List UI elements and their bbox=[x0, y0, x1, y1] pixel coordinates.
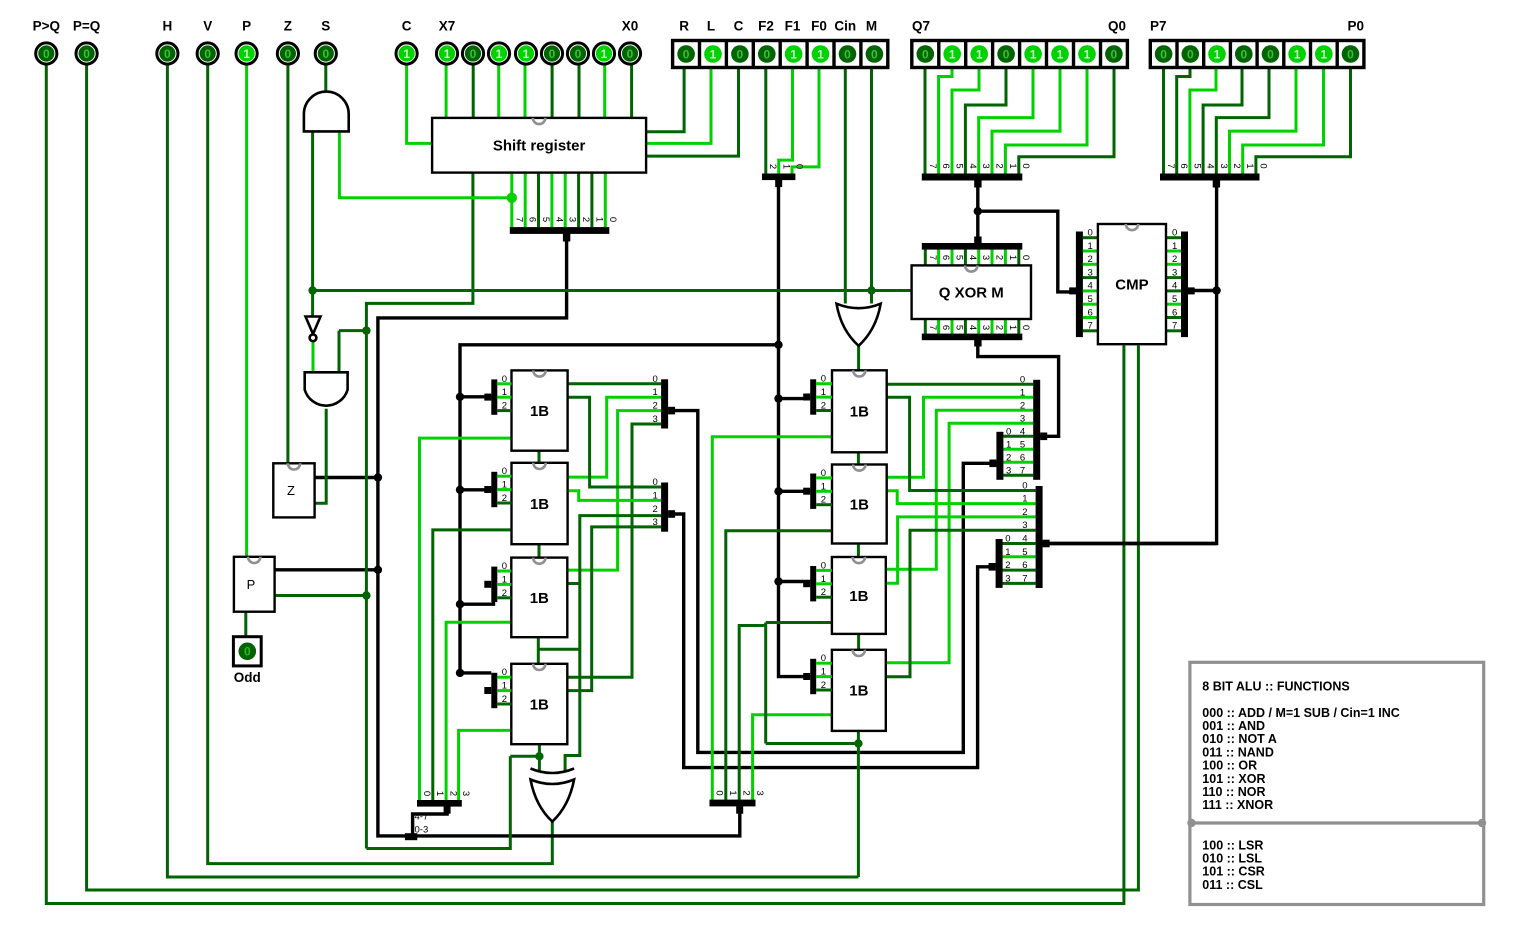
1B slice U10 bbox=[832, 557, 886, 634]
junction P bus at CMP bbox=[1212, 286, 1220, 294]
svg-text:4: 4 bbox=[967, 163, 978, 168]
shift register U1 bbox=[432, 118, 646, 173]
svg-text:100 :: LSR: 100 :: LSR bbox=[1202, 838, 1263, 852]
svg-text:1: 1 bbox=[1006, 439, 1011, 450]
wire net366 to AND gate input bbox=[339, 329, 366, 332]
svg-text:1: 1 bbox=[1022, 494, 1027, 505]
wire AND gate input drop bbox=[338, 331, 341, 373]
input pin C bbox=[396, 19, 417, 65]
bus P splitter trunk down bbox=[1042, 181, 1217, 544]
svg-text:4-7: 4-7 bbox=[415, 812, 429, 823]
wire Q0 to splitter bbox=[1019, 68, 1114, 174]
splitter F select for 1B slice U5 bbox=[484, 466, 511, 507]
svg-text:010 :: NOT A: 010 :: NOT A bbox=[1202, 732, 1277, 746]
1B slice U7 bbox=[511, 664, 567, 744]
svg-text:1: 1 bbox=[496, 47, 503, 61]
wire X4 to 1B box4 input bbox=[459, 730, 512, 800]
svg-text:Q XOR M: Q XOR M bbox=[939, 285, 1004, 302]
svg-text:1: 1 bbox=[821, 481, 826, 492]
splitter F 3-bit bbox=[762, 164, 805, 187]
svg-text:5: 5 bbox=[540, 217, 551, 222]
wire Q bit 6 into Q XOR M bbox=[937, 249, 940, 265]
wire X4 pin to shift register bbox=[524, 65, 527, 118]
wire P6 to splitter bbox=[1177, 68, 1190, 174]
wire Q XOR M result bit 6 bbox=[937, 319, 940, 334]
svg-text:4: 4 bbox=[1172, 281, 1177, 292]
svg-text:V: V bbox=[203, 19, 212, 34]
wire Q5 to splitter bbox=[952, 68, 979, 174]
wire CMP left pin 5 bbox=[1083, 303, 1098, 306]
bus splitter s1 to splitter B bbox=[669, 411, 997, 753]
wire Q bit 1 into Q XOR M bbox=[1004, 249, 1007, 265]
splitter D lower nibble bbox=[989, 534, 1011, 588]
svg-text:P=Q: P=Q bbox=[73, 19, 100, 34]
splitter Q bus 8-bit bbox=[922, 163, 1031, 187]
wire X3 pin to shift register bbox=[551, 65, 554, 118]
splitter B upper nibble bbox=[989, 426, 1011, 480]
svg-text:Z: Z bbox=[284, 19, 292, 34]
wire Q bit 3 into Q XOR M bbox=[977, 249, 980, 265]
svg-text:3: 3 bbox=[567, 217, 578, 222]
wire H flag net bbox=[167, 65, 858, 878]
wire carry box5-box6 bbox=[857, 452, 860, 464]
bus Q XOR M output to splitter A bbox=[978, 339, 1059, 436]
junction X bus at Z bbox=[374, 473, 382, 481]
svg-text:2: 2 bbox=[502, 493, 507, 504]
wire shift register bit 4 to splitter bbox=[550, 173, 553, 228]
flag box Z bbox=[273, 463, 314, 517]
svg-text:Shift register: Shift register bbox=[493, 138, 586, 155]
svg-text:2: 2 bbox=[1088, 254, 1093, 265]
splitter F select for 1B slice U8 bbox=[803, 374, 832, 415]
svg-text:1B: 1B bbox=[849, 683, 868, 700]
wire box2 out to s2 pin1 bbox=[568, 491, 662, 501]
svg-text:3: 3 bbox=[1006, 465, 1011, 476]
wire box8 out to C pin3 bbox=[886, 530, 1036, 677]
svg-text:1B: 1B bbox=[850, 496, 869, 513]
wire splitter B pin 0 to A bbox=[1003, 435, 1033, 438]
svg-text:0: 0 bbox=[821, 560, 826, 571]
svg-text:0: 0 bbox=[575, 47, 582, 61]
wire P>Q net: CMP pin to P>Q pin bbox=[46, 65, 1124, 904]
svg-text:8 BIT ALU :: FUNCTIONS: 8 BIT ALU :: FUNCTIONS bbox=[1202, 680, 1349, 694]
input pin X3 bbox=[541, 43, 562, 64]
comparator CMP U3 bbox=[1098, 224, 1166, 344]
svg-text:0: 0 bbox=[502, 466, 507, 477]
svg-text:2: 2 bbox=[653, 401, 658, 412]
wire splitter D pin 0 to C bbox=[1001, 542, 1036, 545]
junction F left bus bbox=[456, 486, 464, 494]
svg-text:6: 6 bbox=[940, 325, 951, 330]
wire Q4 to splitter bbox=[965, 68, 1006, 174]
wire Q XOR M result bit 2 bbox=[991, 319, 994, 334]
output pin Odd bbox=[233, 637, 261, 685]
svg-text:1B: 1B bbox=[850, 404, 869, 421]
input pin X7 bbox=[436, 19, 457, 65]
svg-text:3: 3 bbox=[1005, 573, 1010, 584]
svg-text:1: 1 bbox=[1020, 387, 1025, 398]
svg-text:1: 1 bbox=[821, 387, 826, 398]
wire F2 pin to F splitter bbox=[764, 68, 767, 174]
svg-text:1: 1 bbox=[780, 164, 791, 169]
svg-text:0: 0 bbox=[627, 47, 634, 61]
wire splitter D pin 2 to C bbox=[1001, 569, 1036, 572]
svg-text:Q7: Q7 bbox=[912, 19, 930, 34]
wire Q bit 5 into Q XOR M bbox=[951, 249, 954, 265]
svg-text:6: 6 bbox=[1172, 307, 1177, 318]
svg-text:5: 5 bbox=[954, 163, 965, 168]
flag box P bbox=[234, 557, 275, 612]
wire carry box6-box7 bbox=[857, 544, 860, 558]
svg-text:2: 2 bbox=[821, 401, 826, 412]
input pin strip P7-P0 bbox=[1150, 19, 1364, 68]
wire P box to net366 bbox=[275, 594, 367, 597]
wire P pin to P box bbox=[245, 65, 248, 557]
wire Q6 to splitter bbox=[939, 68, 952, 174]
svg-text:3: 3 bbox=[980, 163, 991, 168]
wire carry box7-box8 bbox=[857, 634, 860, 650]
svg-text:S: S bbox=[321, 19, 330, 34]
svg-text:2: 2 bbox=[994, 163, 1005, 168]
wire X5 pin to shift register bbox=[497, 65, 500, 118]
svg-text:0: 0 bbox=[821, 374, 826, 385]
wire CMP right pin 4 bbox=[1166, 289, 1181, 292]
wire Cin pin to OR gate bbox=[844, 68, 847, 304]
legend box 8 BIT ALU FUNCTIONS bbox=[1187, 662, 1486, 904]
wire s1 pin2 to box3 bbox=[567, 411, 661, 570]
wire P4 to splitter bbox=[1203, 68, 1242, 174]
wire box3 out / carry to s2 pin2 bbox=[565, 516, 661, 771]
wire L pin to shift register bbox=[646, 68, 711, 144]
wire carry box8 down bbox=[857, 731, 860, 877]
svg-text:X0: X0 bbox=[622, 19, 639, 34]
svg-text:7: 7 bbox=[1172, 321, 1177, 332]
svg-text:F2: F2 bbox=[758, 19, 774, 34]
wire carry box2-box3 bbox=[538, 544, 541, 557]
junction net366 P box branch bbox=[362, 591, 370, 599]
wire OR gate output to box5 bbox=[857, 346, 860, 371]
svg-text:1: 1 bbox=[523, 47, 530, 61]
1B slice U5 bbox=[512, 463, 568, 544]
wire CMP left pin 1 bbox=[1083, 250, 1098, 253]
wire C pin to shift register clock bbox=[407, 65, 433, 144]
wire X3 to 1B box5 input bbox=[712, 437, 832, 800]
svg-text:101 :: CSR: 101 :: CSR bbox=[1202, 865, 1265, 879]
svg-text:2: 2 bbox=[1231, 163, 1242, 168]
svg-text:F1: F1 bbox=[785, 19, 801, 34]
wire Q XOR M result bit 7 bbox=[924, 319, 927, 334]
wire shift register bit 6 to splitter bbox=[524, 173, 527, 228]
wire Q3 to splitter bbox=[979, 68, 1033, 174]
svg-text:1: 1 bbox=[434, 791, 445, 796]
bus Z box input stub bbox=[315, 476, 378, 479]
svg-text:1: 1 bbox=[821, 574, 826, 585]
wire CMP left pin 6 bbox=[1083, 316, 1098, 319]
bus F to splitter s1 bbox=[460, 395, 491, 398]
wire A pin1 to box6 bbox=[887, 397, 1033, 477]
svg-text:0: 0 bbox=[502, 561, 507, 572]
wire splitter D pin 1 to C bbox=[1001, 555, 1036, 558]
wire CMP right pin 3 bbox=[1166, 276, 1181, 279]
junction F left bus s3 bbox=[456, 600, 464, 608]
svg-text:P0: P0 bbox=[1347, 19, 1364, 34]
svg-text:1: 1 bbox=[727, 790, 738, 795]
wire CMP right pin 5 bbox=[1166, 303, 1181, 306]
input pin strip Q7-Q0 bbox=[912, 19, 1128, 68]
svg-text:1: 1 bbox=[1214, 47, 1221, 61]
wire Q bit 7 into Q XOR M bbox=[924, 249, 927, 265]
svg-text:0: 0 bbox=[322, 47, 329, 61]
wire box6 out to C pin1 bbox=[887, 491, 1036, 504]
output pin H bbox=[157, 19, 178, 65]
wire splitter B pin 1 to A bbox=[1003, 448, 1033, 451]
wire box7 out to C pin2 bbox=[886, 517, 1036, 583]
svg-text:0-3: 0-3 bbox=[415, 825, 429, 836]
bus F to splitter s7 bbox=[779, 580, 811, 583]
wire Q XOR M result bit 3 bbox=[977, 319, 980, 334]
wire AND1 right input from X7 bit bbox=[339, 131, 511, 197]
svg-text:1: 1 bbox=[790, 47, 797, 61]
wire C (carry) pin to shift register bbox=[646, 68, 738, 157]
svg-text:001 :: AND: 001 :: AND bbox=[1202, 719, 1265, 733]
svg-text:1: 1 bbox=[1007, 325, 1018, 330]
svg-text:6: 6 bbox=[940, 255, 951, 260]
svg-text:M: M bbox=[866, 19, 877, 34]
svg-text:6: 6 bbox=[527, 217, 538, 222]
splitter F select for 1B slice U4 bbox=[484, 374, 511, 415]
svg-text:P: P bbox=[242, 19, 251, 34]
junction X bus at P box bbox=[374, 566, 382, 574]
input pin X2 bbox=[567, 43, 588, 64]
svg-text:P7: P7 bbox=[1150, 19, 1167, 34]
wire carry to 1B box7 input bbox=[766, 621, 832, 624]
wire CMP left pin 2 bbox=[1083, 263, 1098, 266]
svg-text:3: 3 bbox=[980, 325, 991, 330]
svg-text:4: 4 bbox=[1020, 426, 1025, 437]
svg-text:7: 7 bbox=[1088, 321, 1093, 332]
svg-text:1B: 1B bbox=[530, 696, 549, 713]
wire carry box1-box2 bbox=[538, 451, 541, 463]
svg-text:H: H bbox=[163, 19, 173, 34]
svg-text:0: 0 bbox=[285, 47, 292, 61]
svg-text:0: 0 bbox=[653, 374, 658, 385]
svg-text:5: 5 bbox=[1022, 547, 1027, 558]
Q XOR M unit U2 bbox=[912, 265, 1031, 319]
svg-text:011 :: CSL: 011 :: CSL bbox=[1202, 878, 1263, 892]
svg-text:1: 1 bbox=[502, 574, 507, 585]
wire AND1 left input / M net bbox=[311, 131, 314, 316]
splitter s1 result bits bbox=[653, 374, 676, 429]
wire P box to Odd pin bbox=[244, 612, 247, 637]
svg-text:0: 0 bbox=[502, 667, 507, 678]
svg-text:3: 3 bbox=[653, 414, 658, 425]
svg-text:0: 0 bbox=[821, 653, 826, 664]
svg-text:4: 4 bbox=[967, 255, 978, 260]
svg-text:0: 0 bbox=[1088, 228, 1093, 239]
svg-text:0: 0 bbox=[1172, 228, 1177, 239]
bus CMP right to P trunk bbox=[1188, 289, 1217, 292]
svg-text:0: 0 bbox=[1003, 47, 1010, 61]
1B slice U11 bbox=[832, 650, 886, 731]
svg-text:0: 0 bbox=[1240, 47, 1247, 61]
svg-text:0: 0 bbox=[1257, 163, 1268, 168]
wire M net long horizontal to Q XOR M bbox=[313, 289, 912, 292]
junction M net bbox=[308, 286, 316, 294]
svg-text:3: 3 bbox=[1088, 267, 1093, 278]
output pin P bbox=[236, 19, 257, 65]
wire carry box3-box4 bbox=[537, 637, 540, 664]
wire X1 to 1B box7 input bbox=[739, 626, 766, 800]
svg-text:0: 0 bbox=[1020, 163, 1031, 168]
bus F to splitter s3 bbox=[460, 599, 494, 604]
svg-text:101 :: XOR: 101 :: XOR bbox=[1202, 772, 1265, 786]
svg-text:2: 2 bbox=[821, 495, 826, 506]
svg-text:7: 7 bbox=[927, 163, 938, 168]
svg-text:0: 0 bbox=[502, 374, 507, 385]
splitter nub 4-7/0-3 bbox=[405, 833, 417, 840]
svg-text:0: 0 bbox=[653, 477, 658, 488]
svg-text:F0: F0 bbox=[811, 19, 827, 34]
svg-text:0: 0 bbox=[1020, 374, 1025, 385]
bus F to splitter s5 bbox=[779, 397, 811, 400]
wire X0 to 1B box8 input bbox=[753, 715, 832, 800]
svg-text:4: 4 bbox=[553, 217, 564, 222]
svg-text:0: 0 bbox=[821, 468, 826, 479]
svg-text:CMP: CMP bbox=[1115, 277, 1148, 294]
svg-text:2: 2 bbox=[1022, 507, 1027, 518]
OR gate carry-in bbox=[837, 304, 881, 346]
svg-text:0: 0 bbox=[1160, 47, 1167, 61]
svg-text:3: 3 bbox=[754, 790, 765, 795]
svg-text:5: 5 bbox=[954, 325, 965, 330]
wire CMP left pin 7 bbox=[1083, 329, 1098, 332]
svg-text:1: 1 bbox=[1005, 547, 1010, 558]
junction M net at M pin bbox=[867, 286, 875, 294]
svg-text:2: 2 bbox=[502, 588, 507, 599]
svg-text:7: 7 bbox=[927, 255, 938, 260]
svg-text:2: 2 bbox=[447, 791, 458, 796]
wire carry box4 to XOR gate bbox=[538, 744, 541, 770]
wire s1 pin3 to box4 bbox=[567, 424, 661, 677]
svg-text:010 :: LSL: 010 :: LSL bbox=[1202, 852, 1262, 866]
wire Q XOR M result bit 5 bbox=[951, 319, 954, 334]
svg-text:2: 2 bbox=[741, 790, 752, 795]
wire X0 pin to shift register bbox=[630, 65, 633, 118]
wire shift register bit 0 to splitter bbox=[604, 173, 607, 228]
svg-text:7: 7 bbox=[1020, 465, 1025, 476]
wire X2 to 1B box6 input bbox=[726, 531, 832, 800]
inverter bbox=[306, 317, 321, 335]
splitter left nibble 4-7 bbox=[417, 791, 471, 814]
svg-text:0: 0 bbox=[737, 47, 744, 61]
output pin S bbox=[315, 19, 336, 65]
svg-text:0: 0 bbox=[83, 47, 90, 61]
svg-text:6: 6 bbox=[940, 163, 951, 168]
wire P5 to splitter bbox=[1190, 68, 1216, 174]
svg-text:R: R bbox=[679, 19, 689, 34]
svg-text:0: 0 bbox=[607, 217, 618, 222]
input pin strip R L C F2 F1 F0 Cin M bbox=[673, 19, 888, 68]
svg-text:5: 5 bbox=[1020, 439, 1025, 450]
svg-text:2: 2 bbox=[821, 587, 826, 598]
wire Q7 to splitter bbox=[924, 68, 927, 174]
wire X7 to 1B box1 input bbox=[420, 438, 513, 800]
wire splitter D pin 3 to C bbox=[1001, 582, 1036, 585]
svg-text:2: 2 bbox=[994, 325, 1005, 330]
junction F left bus bbox=[456, 393, 464, 401]
wire P2 to splitter bbox=[1230, 68, 1297, 174]
wire CMP right pin 6 bbox=[1166, 316, 1181, 319]
svg-text:4: 4 bbox=[1205, 163, 1216, 168]
svg-text:Q0: Q0 bbox=[1108, 19, 1126, 34]
bus branch to left nibble splitter bbox=[413, 806, 448, 834]
bus Q splitter trunk to Q XOR M bbox=[976, 181, 979, 244]
wire P=Q net: CMP pin to P=Q pin bbox=[87, 65, 1139, 891]
svg-text:0: 0 bbox=[204, 47, 211, 61]
svg-text:0: 0 bbox=[164, 47, 171, 61]
junction Q bus bbox=[974, 207, 982, 215]
splitter F select for 1B slice U9 bbox=[803, 468, 832, 509]
wire shift register bit 7 to splitter bbox=[510, 173, 513, 228]
svg-text:0: 0 bbox=[1005, 534, 1010, 545]
svg-text:0: 0 bbox=[1020, 325, 1031, 330]
svg-text:1: 1 bbox=[821, 667, 826, 678]
wire CMP right pin 1 bbox=[1166, 250, 1181, 253]
svg-text:3: 3 bbox=[980, 255, 991, 260]
svg-text:0: 0 bbox=[1347, 47, 1354, 61]
wire CMP right pin 0 bbox=[1166, 236, 1181, 239]
svg-text:P: P bbox=[247, 577, 256, 592]
svg-text:X7: X7 bbox=[439, 19, 456, 34]
1B slice U6 bbox=[511, 558, 567, 638]
svg-text:1: 1 bbox=[593, 217, 604, 222]
svg-text:1B: 1B bbox=[530, 403, 549, 420]
junction F left bus s4 bbox=[456, 669, 464, 677]
svg-text:1: 1 bbox=[1320, 47, 1327, 61]
svg-text:1: 1 bbox=[502, 480, 507, 491]
svg-text:1: 1 bbox=[502, 387, 507, 398]
svg-text:1: 1 bbox=[653, 490, 658, 501]
wire inverter output to AND2 bbox=[312, 341, 315, 372]
junction carry box8 bbox=[854, 739, 862, 747]
splitter right nibble 0-3 bbox=[710, 790, 765, 813]
svg-text:4: 4 bbox=[1022, 534, 1027, 545]
wire F0 pin to F splitter bbox=[792, 68, 819, 174]
svg-text:Z: Z bbox=[287, 483, 295, 498]
junction net366 AND branch bbox=[362, 326, 370, 334]
junction F right bus bbox=[774, 577, 782, 585]
svg-text:1: 1 bbox=[403, 47, 410, 61]
splitter C (result bus) bbox=[1022, 481, 1049, 589]
wire X6 to 1B box2 input bbox=[433, 530, 513, 800]
wire carry box8 to box7 input bbox=[766, 742, 859, 745]
svg-text:2: 2 bbox=[1005, 560, 1010, 571]
input pin X5 bbox=[488, 43, 509, 64]
svg-text:0: 0 bbox=[794, 164, 805, 169]
wire box5 out to C pin0 bbox=[887, 397, 1036, 490]
1B slice U4 bbox=[512, 370, 568, 450]
wire shift reg bit to distribution net bbox=[366, 173, 473, 849]
wire CMP left pin 3 bbox=[1083, 276, 1098, 279]
svg-text:L: L bbox=[707, 19, 715, 34]
svg-text:1: 1 bbox=[444, 47, 451, 61]
svg-text:2: 2 bbox=[653, 504, 658, 515]
wire F1 pin to F splitter bbox=[779, 68, 793, 174]
svg-text:0: 0 bbox=[871, 47, 878, 61]
svg-text:Odd: Odd bbox=[234, 670, 261, 685]
wire A pin0 to box5 bbox=[887, 383, 1033, 386]
wire box4 out to s2 pin3 bbox=[567, 527, 661, 691]
